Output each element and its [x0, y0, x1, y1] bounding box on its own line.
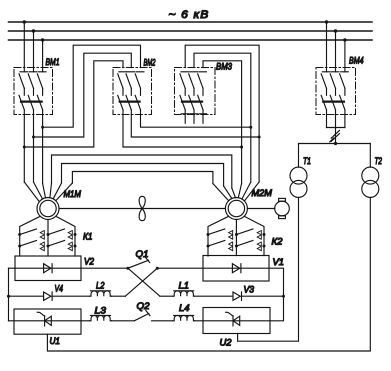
svg-text:ВМ1: ВМ1	[46, 56, 60, 67]
node right vertical V3	[282, 295, 285, 298]
wire M2M fan-in right 2	[242, 182, 251, 199]
inductor L3	[90, 315, 112, 320]
wire V4 branch	[9, 295, 44, 297]
node VM1 out2 branch	[32, 136, 35, 139]
wire VM3 top 2 over to M2M feeder	[194, 53, 251, 182]
node K1 r2c3	[74, 245, 77, 248]
inductor L4	[173, 315, 195, 320]
contactor K2 contact blade r2c1	[208, 241, 225, 247]
svg-text:К2: К2	[272, 236, 284, 247]
cable mark	[330, 130, 340, 141]
tachogenerator	[275, 201, 290, 216]
svg-text:ВМ3: ВМ3	[216, 61, 233, 72]
node K2 r2c3	[263, 245, 266, 248]
wire L3 to Q2	[112, 320, 135, 322]
wire M2M fan-in left 2	[224, 186, 232, 199]
contactor K1 right vertical	[56, 216, 75, 256]
wire T1 to U2 return	[238, 197, 299, 341]
wire T2 drop	[369, 144, 371, 168]
switch Q1 blade	[128, 260, 149, 268]
contactor K2 chevrons r2c2	[257, 242, 261, 251]
node K1 r2c1	[18, 245, 21, 248]
motor M2M	[225, 198, 247, 220]
svg-text:L1: L1	[179, 280, 190, 291]
svg-text:К1: К1	[83, 231, 93, 242]
transformer T1	[290, 167, 307, 184]
contactor K2 chevrons r1c2	[257, 231, 261, 240]
rectifier V1 box	[203, 256, 269, 282]
node C1	[249, 126, 252, 129]
breaker VM3 pole 3	[198, 72, 207, 123]
contactor K1 contact blade r2c1	[20, 241, 37, 247]
inductor L1	[173, 291, 195, 296]
contactor K1 chevrons r1c2	[68, 231, 72, 240]
node K2 r1c3	[263, 233, 266, 236]
wire VM3 top 1 over to M2M feeder	[185, 45, 259, 182]
svg-text:U2: U2	[220, 337, 233, 348]
diode V1	[232, 264, 241, 273]
wire VM4 merge right	[344, 115, 346, 128]
contactor K1 contact blade r2c2	[48, 241, 65, 247]
node C3	[240, 146, 243, 149]
node bus A1	[23, 20, 26, 23]
node bus B2	[334, 29, 337, 32]
rectifier V2 box	[15, 256, 81, 281]
wire tie line 2 M1M-M2M	[62, 164, 224, 187]
wire U1 internal	[14, 320, 81, 322]
contactor K1 chevrons r2c2	[68, 242, 72, 251]
wire VM1 output 3 down to M1M	[42, 115, 44, 184]
wire U1 left to bracket	[9, 320, 15, 322]
wire V1 internal	[203, 267, 269, 269]
fan symbol on shaft	[139, 196, 145, 220]
svg-text:М2М: М2М	[252, 187, 273, 198]
breaker VM3 pole 1	[180, 72, 189, 123]
svg-text:Q2: Q2	[137, 300, 151, 311]
node K2 r1c2	[235, 233, 238, 236]
wire transformer feeder horizontal	[299, 143, 371, 145]
svg-text:Т1: Т1	[303, 155, 311, 166]
wire U1 to L3	[81, 320, 90, 322]
node bus B1	[325, 20, 328, 23]
contactor K2 center vertical	[235, 220, 237, 256]
wire M2M fan-in right 1	[238, 184, 241, 198]
wire M2M fan-in right 3	[244, 182, 259, 201]
motor M1M	[37, 198, 59, 220]
wire Q2 to L4	[152, 320, 173, 322]
contactor K2 contact blade r1c1	[208, 229, 225, 235]
node bus B3	[343, 38, 346, 41]
wire V2 left to bracket	[9, 267, 16, 269]
wire tie line 3 M1M-M2M	[72, 172, 213, 184]
breaker VM3 pole 2	[189, 72, 198, 123]
wire branch VM1 out3 to VM2 in1	[43, 45, 141, 127]
diode V3	[233, 292, 242, 300]
wire VM3 top 3 over to M2M feeder	[203, 61, 242, 184]
breaker VM4 pole 2	[330, 72, 339, 115]
svg-text:~ 6 кВ: ~ 6 кВ	[169, 9, 210, 21]
svg-text:U1: U1	[50, 335, 61, 346]
svg-text:V2: V2	[84, 256, 95, 267]
wire bus drop B1	[326, 22, 328, 72]
node bus A2	[32, 29, 35, 32]
wire VM1 output 1 down to M1M	[23, 115, 25, 183]
contactor K1 left vertical	[20, 216, 41, 256]
node K1 r1c2	[47, 233, 50, 236]
breaker VM4 pole 1	[321, 72, 330, 115]
node K1 r2c2	[47, 245, 50, 248]
wire L2 to crossing	[112, 295, 126, 297]
wire crossing to L1	[160, 295, 173, 297]
breaker VM1 pole 3	[37, 72, 46, 115]
breaker VM2 linkage bar	[120, 100, 140, 102]
bus line L2	[9, 30, 373, 32]
wire Q1 to V1	[157, 267, 203, 269]
wire VM4 merge left	[326, 115, 328, 128]
svg-text:L4: L4	[179, 302, 190, 313]
wire VM1 output 2 down to M1M	[33, 115, 35, 183]
svg-text:L2: L2	[96, 280, 105, 291]
node Q1 left	[126, 267, 129, 270]
inductor L2	[90, 291, 112, 296]
wire VM4 merge bar	[327, 127, 345, 129]
node bracket V4	[7, 295, 10, 298]
contactor K2 contact blade r1c2	[236, 229, 253, 235]
wire shaft M1M to M2M	[59, 208, 225, 210]
diode V4	[44, 292, 53, 300]
node VM1 out3 branch	[41, 126, 44, 129]
contactor K1 chevrons r1c1	[40, 231, 44, 240]
bus line L3	[9, 39, 373, 41]
breaker VM4 pole 3	[340, 72, 349, 115]
node K1 r1c3	[74, 233, 77, 236]
wire V2 out to Q1	[81, 267, 128, 269]
thyristor unit U2 box	[203, 308, 270, 334]
wire left bracket vertical	[8, 268, 10, 321]
wire M2M fan-in left 1	[213, 184, 229, 201]
wire crossing diagonal up	[125, 268, 157, 296]
diode V2	[44, 264, 53, 273]
svg-text:Q1: Q1	[136, 248, 149, 259]
breaker VM2 box	[113, 68, 152, 115]
wire bus drop B2	[335, 31, 337, 72]
wire M1M fan-in right 3	[56, 183, 73, 201]
wire bus drop A3	[42, 40, 44, 72]
wire L4 to U2	[195, 320, 203, 322]
breaker VM4 linkage bar	[323, 100, 344, 102]
svg-text:V3: V3	[244, 284, 255, 295]
wire T1 drop	[298, 144, 300, 168]
node K2 r2c1	[207, 245, 210, 248]
contactor K2 chevrons r1c1	[229, 231, 233, 240]
wire crossing diagonal down	[128, 268, 160, 296]
wire VM2 output 1 to node C3	[123, 115, 242, 148]
svg-text:L3: L3	[95, 304, 107, 315]
wire V4 to L2	[52, 295, 89, 297]
contactor K2 chevrons r2c1	[229, 242, 233, 251]
contactor K1 contact blade r1c1	[20, 229, 37, 235]
svg-text:Т2: Т2	[375, 155, 383, 166]
contactor K2 right vertical	[244, 216, 264, 255]
svg-text:ВМ4: ВМ4	[349, 55, 364, 66]
svg-text:М1М: М1М	[64, 188, 82, 199]
breaker VM2 pole 2	[126, 72, 135, 115]
breaker VM2 pole 3	[135, 72, 144, 115]
wire M1M fan-in left 1	[24, 182, 39, 202]
contactor K2 contact blade r2c2	[236, 241, 253, 247]
node T junction	[334, 142, 337, 145]
breaker VM1 pole 1	[19, 72, 28, 115]
breaker VM4 box	[316, 68, 356, 115]
breaker VM2 pole 1	[118, 72, 127, 115]
node K1 r1c1	[18, 233, 21, 236]
breaker VM1 pole 2	[28, 72, 37, 115]
node C2	[258, 136, 261, 139]
switch Q2 blade	[134, 314, 149, 321]
wire tie line 1 M1M-M2M	[52, 155, 232, 188]
node Q1 right	[156, 267, 159, 270]
breaker VM3 box	[175, 68, 216, 115]
node bus A3	[41, 38, 44, 41]
wire M2M fan-in left 3	[232, 188, 236, 198]
wire M1M fan-in left 3	[43, 184, 46, 198]
wire shaft M2M to tacho	[247, 208, 274, 210]
wire V1 out to right vertical	[269, 268, 284, 321]
breaker VM3 linkage bar	[182, 100, 202, 102]
wire bus drop A1	[23, 22, 25, 72]
wire V2 internal	[15, 267, 81, 269]
wire T2 to U1 return	[47, 197, 370, 351]
contactor K2 left vertical	[208, 216, 229, 256]
wire M1M fan-in right 2	[53, 183, 61, 199]
wire bus drop B3	[344, 40, 346, 72]
wire branch VM1 out1 to VM2 in3	[24, 61, 123, 147]
node VM1 out1 branch	[23, 146, 26, 149]
wire U2 internal	[203, 320, 270, 322]
bus line L1 -6kV	[9, 21, 373, 23]
wire M1M fan-in right 1	[50, 183, 52, 198]
wire branch VM1 out2 to VM2 in2	[34, 53, 132, 137]
wire L1 to V3	[195, 295, 233, 297]
wire VM4 merge center	[335, 115, 337, 144]
wire VM2 output 3 to node C1	[141, 115, 251, 128]
contactor K1 center vertical	[47, 220, 49, 257]
wire V3 to right vertical	[242, 295, 284, 297]
node K2 r2c2	[235, 245, 238, 248]
breaker VM1 linkage bar	[21, 100, 41, 102]
breaker VM1 box	[14, 68, 53, 115]
node K2 r1c1	[207, 233, 210, 236]
thyristor unit U1 box	[14, 309, 81, 334]
wire M1M fan-in left 2	[34, 182, 43, 199]
wire VM2 output 2 to node C2	[131, 115, 259, 138]
svg-text:ВМ2: ВМ2	[144, 57, 156, 68]
svg-text:V1: V1	[273, 256, 285, 267]
wire bus drop A2	[33, 31, 35, 72]
thyristor U1	[37, 312, 51, 326]
thyristor U2	[226, 312, 240, 326]
svg-text:V4: V4	[55, 282, 64, 293]
transformer T2	[362, 167, 379, 184]
contactor K1 chevrons r2c1	[40, 242, 44, 251]
contactor K1 contact blade r1c2	[48, 229, 65, 235]
